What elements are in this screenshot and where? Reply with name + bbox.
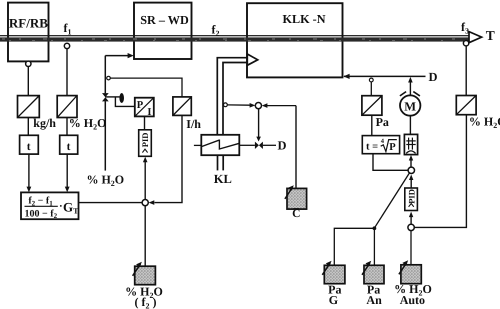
wire junction to Pa An bbox=[373, 230, 375, 265]
svg-text:PID: PID bbox=[140, 133, 150, 148]
setpoint station C bbox=[285, 185, 307, 220]
svg-text:100 − f2: 100 − f2 bbox=[25, 208, 58, 220]
svg-text:I/h: I/h bbox=[186, 117, 201, 131]
station %H2O Auto bbox=[394, 260, 432, 307]
positioner block bbox=[404, 134, 417, 154]
wire kg/h to t bbox=[27, 118, 29, 136]
wire f1 to %H2O sensor bbox=[66, 49, 68, 96]
svg-text:Auto: Auto bbox=[400, 293, 425, 307]
tap node on %H2O line bbox=[107, 76, 111, 80]
formula block GT bbox=[21, 192, 79, 220]
setpoint station %H2O(f2) bbox=[125, 262, 163, 309]
wire node to positioner (arrow up) bbox=[409, 155, 413, 167]
wire %H2O sensor to f3 node bbox=[465, 46, 467, 96]
wire sqrt block to node bbox=[373, 154, 408, 171]
hand actuator (ellipse) bbox=[119, 93, 124, 103]
wire M down to positioner bbox=[409, 116, 411, 135]
svg-text:PID: PID bbox=[406, 189, 416, 204]
station Pa G bbox=[322, 261, 345, 307]
block RF/RB bbox=[8, 3, 49, 62]
svg-text:KLK -N: KLK -N bbox=[283, 12, 326, 26]
svg-text:I: I bbox=[147, 107, 151, 118]
wire KL to valve D bbox=[239, 144, 255, 146]
svg-text:G: G bbox=[329, 293, 338, 307]
svg-text:M: M bbox=[404, 99, 416, 113]
wire node2 to %H2O sensor (right) bbox=[414, 115, 466, 228]
summing node (right upper) bbox=[408, 167, 414, 173]
wire tap to comparator (arrow right) bbox=[227, 103, 255, 108]
svg-text:P: P bbox=[137, 100, 144, 111]
svg-text:P: P bbox=[389, 142, 396, 153]
wire actuator to P/I bbox=[115, 97, 134, 107]
svg-text:Pa: Pa bbox=[376, 115, 389, 129]
duct: KL air supply to KLK-N bbox=[217, 58, 247, 135]
wire: %H2O line up to SR-WD bbox=[105, 53, 134, 171]
wire RF/RB to kg/h sensor bbox=[27, 67, 29, 96]
sensor Pa bbox=[362, 96, 389, 129]
node (right lower) bbox=[408, 224, 414, 230]
block KLK-N bbox=[247, 3, 343, 77]
node f3 bbox=[463, 41, 468, 46]
svg-text:D: D bbox=[429, 70, 438, 84]
svg-text:% H2O: % H2O bbox=[86, 173, 124, 189]
wire tap to Pa sensor bbox=[370, 82, 372, 96]
svg-text:C: C bbox=[292, 208, 300, 220]
svg-text:% H2O: % H2O bbox=[69, 116, 107, 132]
block t (left) bbox=[20, 135, 39, 154]
function block t=4thRoot(P) bbox=[362, 136, 399, 154]
mixing node (left) bbox=[142, 200, 148, 206]
svg-text:t: t bbox=[67, 141, 71, 153]
arrow: duct into KLK-N bbox=[247, 54, 257, 65]
svg-text:KL: KL bbox=[214, 172, 232, 186]
svg-text:kg/h: kg/h bbox=[33, 116, 56, 130]
node f1 bbox=[64, 43, 69, 48]
duct below KL bbox=[218, 155, 224, 170]
block t (f1) bbox=[60, 135, 78, 154]
wire junction to Pa G bbox=[334, 228, 374, 265]
wire node2 down to Auto station bbox=[410, 231, 412, 265]
svg-text:RF/RB: RF/RB bbox=[9, 16, 48, 31]
wire: main material line T bbox=[0, 35, 470, 42]
svg-text:D: D bbox=[278, 138, 287, 152]
svg-text:SR – WD: SR – WD bbox=[140, 13, 189, 27]
sensor kg/h bbox=[18, 96, 57, 130]
junction dot bbox=[373, 226, 377, 230]
wire C setpoint to comparator (arrow left) bbox=[262, 103, 296, 188]
wire Pa to sqrt block bbox=[371, 115, 373, 135]
wire tap to I/h sensor bbox=[110, 78, 182, 97]
node: RF/RB outlet bbox=[26, 61, 31, 66]
heater KL bbox=[201, 135, 239, 155]
wire PID to node (arrow up) bbox=[409, 175, 413, 189]
svg-text:An: An bbox=[366, 293, 382, 307]
wire node2 to PID (arrow up) bbox=[409, 212, 413, 225]
valve on %H2O line bbox=[102, 93, 109, 101]
wire t to formula box bbox=[65, 154, 70, 192]
tap node on D line bbox=[369, 78, 373, 82]
wire t to formula box bbox=[27, 154, 32, 192]
svg-text:T: T bbox=[486, 28, 495, 43]
wire valve to label D bbox=[263, 144, 276, 146]
wire %H2O to t bbox=[66, 118, 68, 136]
arrow: material line outlet bbox=[469, 32, 482, 43]
tap node on duct bbox=[224, 103, 228, 107]
converter P/I bbox=[135, 98, 154, 118]
controller PID (left) bbox=[139, 130, 152, 157]
sensor I/h bbox=[173, 97, 201, 131]
sensor %H2O (f3) bbox=[456, 96, 500, 130]
motor M bbox=[400, 92, 421, 116]
wire I/h down to node (arrow left) bbox=[149, 115, 182, 204]
wire node up to PID (arrow) bbox=[143, 157, 148, 200]
wire formula box to mixing node bbox=[79, 202, 143, 204]
wire valve to hand actuator bbox=[105, 96, 119, 98]
wire P/I to PID bbox=[144, 116, 146, 129]
wire node down to setpoint box bbox=[144, 206, 146, 267]
wire diagonal node to Pa stations bbox=[375, 173, 410, 228]
sensor %H2O (f1) bbox=[57, 96, 106, 132]
wire node to valve (arrow down) bbox=[256, 109, 261, 142]
wire M to D line (arrow up) bbox=[408, 77, 413, 95]
valve (steam D) bbox=[255, 142, 263, 149]
svg-text:t: t bbox=[27, 141, 31, 153]
controller PID (right) bbox=[405, 188, 418, 211]
comparator node bbox=[255, 103, 261, 109]
wire damper line D bbox=[343, 74, 425, 79]
block SR-WD bbox=[134, 3, 192, 59]
station Pa An bbox=[362, 261, 384, 307]
wire stub left of KL bbox=[194, 144, 201, 146]
svg-text:t =: t = bbox=[366, 142, 378, 153]
